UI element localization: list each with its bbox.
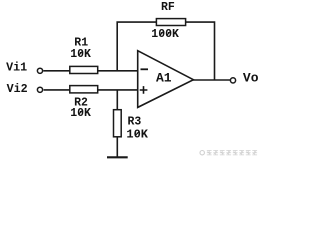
terminal Vi2 xyxy=(37,87,42,92)
terminal Vi1 xyxy=(37,68,42,73)
svg-text:10K: 10K xyxy=(70,107,91,120)
wire R3 to ground xyxy=(116,137,118,157)
wire non-inverting node down to R3 xyxy=(116,90,118,110)
svg-text:R3: R3 xyxy=(128,115,142,128)
svg-text:A1: A1 xyxy=(156,71,172,86)
svg-text:100K: 100K xyxy=(151,28,179,41)
slash in zero of R1 10K xyxy=(78,51,82,55)
slash in zero of R2 10K xyxy=(78,110,82,114)
wire Vi1 to R1 xyxy=(43,70,70,72)
svg-text:RF: RF xyxy=(161,1,175,14)
slash in zero of R3 10K xyxy=(135,131,139,136)
svg-text:Vi1: Vi1 xyxy=(6,61,27,75)
svg-text:Vi2: Vi2 xyxy=(7,82,28,96)
wire R2 to op-amp non-inverting input xyxy=(98,89,138,91)
wire Vi2 to R2 xyxy=(44,89,70,91)
wire feedback left riser from inverting node up and right to RF xyxy=(117,22,156,71)
resistor R1 xyxy=(70,66,98,73)
wire RF to output riser down to output node xyxy=(186,22,215,80)
op-amp minus input sign xyxy=(141,68,149,70)
op-amp A1 triangle xyxy=(138,51,194,108)
watermark text blobs xyxy=(207,151,257,155)
slashes in zeros of 100K xyxy=(160,31,171,35)
wire op-amp output to Vo terminal xyxy=(192,79,230,81)
op-amp plus input sign xyxy=(140,86,148,94)
resistor R2 xyxy=(70,86,98,93)
svg-text:Vo: Vo xyxy=(243,71,259,86)
ground xyxy=(107,156,128,158)
resistor RF xyxy=(156,19,185,26)
wire R1 to op-amp inverting input xyxy=(98,70,138,72)
svg-text:10K: 10K xyxy=(126,127,148,141)
resistor R3 xyxy=(114,110,122,137)
terminal Vo xyxy=(230,78,235,83)
watermark logo xyxy=(200,151,204,155)
svg-text:10K: 10K xyxy=(70,48,91,61)
